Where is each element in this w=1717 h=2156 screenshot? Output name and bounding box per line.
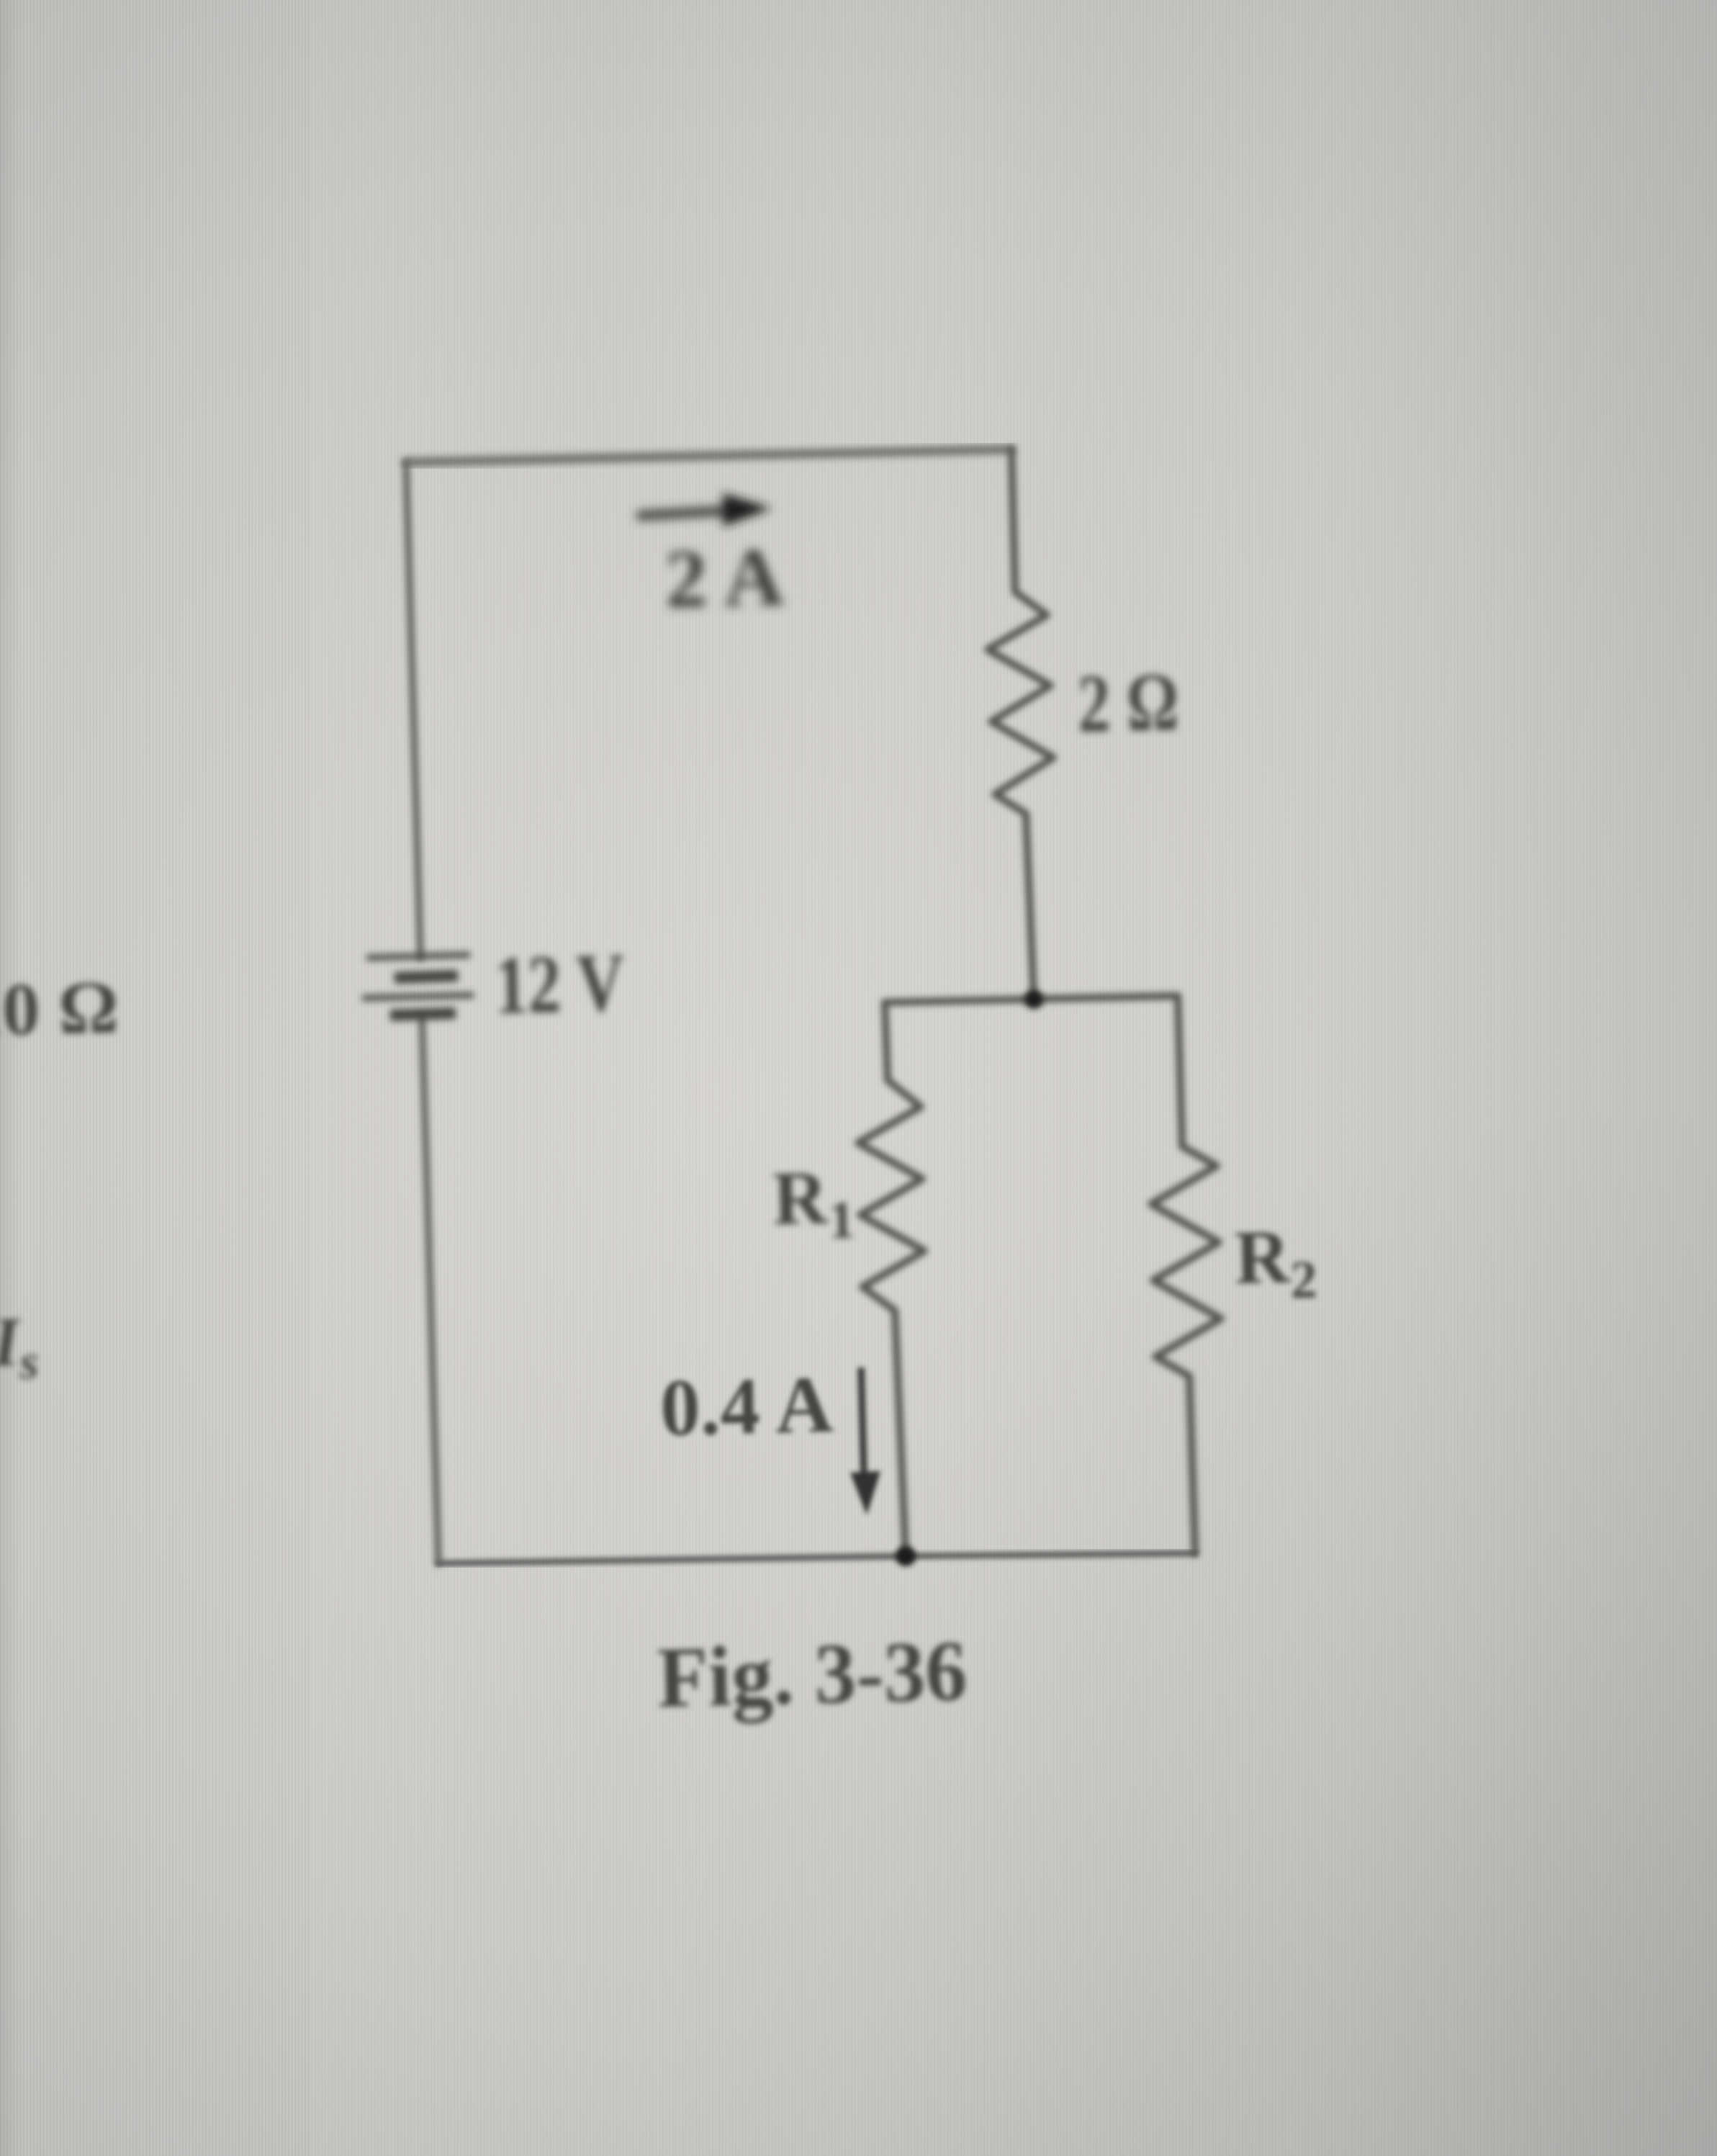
svg-text:0.4 A: 0.4 A: [659, 1360, 834, 1453]
wire right upper: [1011, 449, 1015, 592]
battery plate long positive lower: [362, 995, 474, 998]
resistor R2: [1151, 1146, 1221, 1376]
node A junction dot: [1024, 990, 1043, 1009]
wire left upper: [406, 462, 420, 958]
battery plate short negative upper: [395, 976, 458, 978]
current arrow 0.4A: [850, 1367, 880, 1515]
wire left side and bottom: [406, 462, 438, 1563]
svg-text:2 A: 2 A: [664, 531, 785, 626]
battery plate short negative lower: [390, 1013, 456, 1015]
wire resistor to node A: [1026, 814, 1034, 1000]
node B junction dot: [896, 1546, 916, 1566]
wire left lower: [422, 1017, 438, 1563]
svg-text:10 Ω: 10 Ω: [0, 966, 120, 1052]
wire top: [406, 449, 1011, 462]
svg-text:Fig. 3-36: Fig. 3-36: [657, 1622, 968, 1726]
svg-text:2 Ω: 2 Ω: [1077, 656, 1180, 750]
wire branch R2 upper: [1178, 996, 1182, 1146]
wire branch R2 lower: [1189, 1376, 1195, 1553]
wire bottom: [438, 1553, 1195, 1563]
wire branch R1 lower: [895, 1311, 906, 1556]
current arrow 2A: [641, 493, 772, 526]
resistor R1: [858, 1080, 924, 1311]
resistor 2 ohm: [988, 592, 1053, 814]
wire parallel top: [885, 996, 1178, 1002]
battery plate long positive upper: [366, 955, 470, 958]
right portion of circuit: [858, 449, 1221, 1556]
battery B1 12 V: [362, 955, 474, 1015]
svg-text:12 V: 12 V: [494, 937, 626, 1032]
wire branch R1 upper: [885, 1002, 888, 1080]
